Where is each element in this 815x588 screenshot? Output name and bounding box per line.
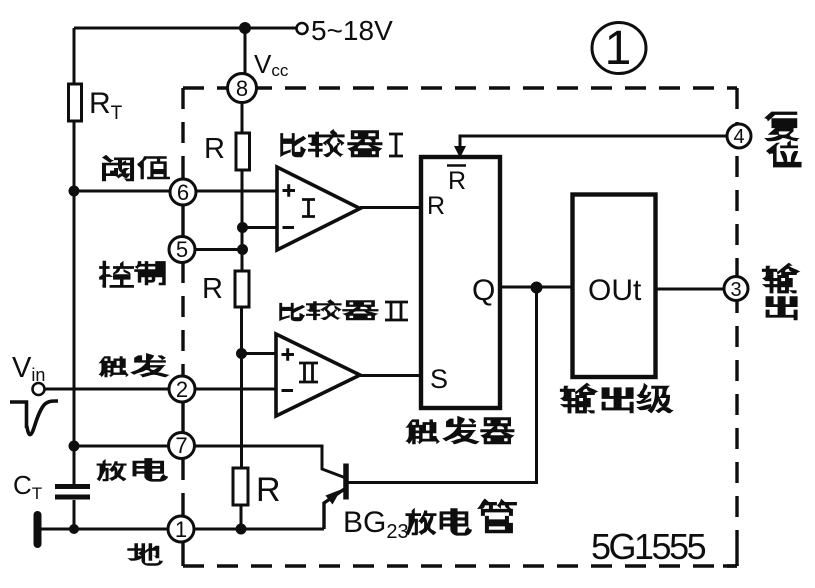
label output chinese char 1 [762, 263, 801, 294]
svg-text:3: 3 [730, 279, 741, 301]
label comparator II char 1 [279, 303, 305, 321]
label discharge chinese char 2 [133, 458, 168, 481]
arrow into flip-flop reset [454, 146, 466, 158]
svg-text:Vin: Vin [12, 352, 45, 385]
pin 1 ground [168, 516, 194, 542]
wire: tap to comparator I inverting input [242, 226, 277, 229]
wire: bottom ground rail [40, 528, 324, 531]
IC boundary dashed box 5G1555 [183, 88, 737, 566]
label comparator II roman II [385, 302, 408, 320]
resistor R middle divider [235, 271, 249, 307]
label output chinese char 2 [766, 296, 798, 320]
wire: output stage to pin 3 [656, 288, 726, 291]
label I roman numeral inside comparator I [302, 200, 315, 217]
node: control pin 5 tap [237, 244, 248, 255]
svg-text:R: R [427, 192, 445, 220]
flip-flop block U3 [421, 157, 500, 408]
wire: pin8 to R divider [241, 103, 244, 133]
label reset chinese char 2 [766, 140, 802, 167]
label flip-flop char 3 [480, 417, 514, 444]
svg-text:5G1555: 5G1555 [591, 526, 706, 567]
svg-text:6: 6 [177, 180, 189, 205]
pin 3 output [724, 277, 748, 302]
label discharge tube char 1 [406, 508, 437, 536]
label output stage char 2 [602, 387, 634, 413]
svg-text:2: 2 [176, 377, 188, 402]
node: junction top rail to pin 8 [239, 22, 251, 34]
wire: Q junction down to transistor base [348, 288, 537, 483]
wire: pin 5 to divider [182, 248, 243, 251]
label control chinese char 2 [134, 261, 165, 285]
label ground chinese char [127, 543, 163, 566]
label flip-flop char 1 [405, 419, 440, 444]
label output stage char 3 [636, 383, 673, 414]
svg-text:5: 5 [176, 237, 188, 262]
svg-text:R: R [202, 273, 223, 305]
node: discharge junction on left rail [69, 441, 80, 452]
transistor emitter with arrow [324, 489, 345, 529]
svg-text:CT: CT [13, 470, 42, 503]
pin 4 reset [727, 124, 751, 148]
pin 7 discharge [169, 433, 195, 459]
svg-text:7: 7 [175, 433, 187, 458]
wire: Vin to comparator II inverting input [45, 388, 276, 391]
label trigger chinese char 2 [130, 353, 170, 377]
svg-text:Q: Q [472, 274, 495, 307]
figure number 1 in circle [592, 22, 646, 75]
wire: comparator II output to flip-flop S [360, 374, 421, 377]
op-amp comparator I U1 [277, 167, 360, 250]
label threshold chinese char 1 [102, 155, 134, 181]
wire: Q output to output stage [500, 286, 572, 289]
label II roman numeral inside comparator II [299, 363, 318, 382]
wire: left vertical threshold to discharge node [73, 191, 76, 446]
wire: tap to comparator II non-inverting input [242, 352, 277, 355]
label comparator I char 3 [347, 130, 382, 157]
svg-text:1: 1 [175, 517, 187, 542]
wire: comparator I output to flip-flop R [360, 206, 421, 209]
label comparator I char 1 [280, 133, 306, 157]
svg-text:BG23: BG23 [343, 506, 409, 543]
transistor Q1 BG23 bar [343, 464, 349, 500]
label threshold chinese char 2 [137, 156, 170, 179]
label discharge tube char 3 [477, 498, 517, 533]
label discharge chinese char 1 [97, 459, 127, 481]
svg-text:R: R [448, 167, 466, 195]
node: CT to ground rail junction [69, 524, 79, 534]
op-amp comparator II U2 [276, 334, 360, 416]
wire: left vertical from rail to RT [73, 28, 76, 84]
waveform negative trigger pulse [10, 401, 58, 435]
label comparator II char 3 [342, 300, 378, 320]
node: comparator II non-inverting tap [236, 348, 247, 359]
capacitor CT [55, 484, 90, 489]
svg-text:8: 8 [236, 76, 248, 101]
wire: lower R to ground rail [240, 505, 243, 529]
wire: CT to ground rail [73, 500, 76, 529]
pin 5 control [169, 237, 195, 263]
wire: discharge pin 7 to transistor collector [74, 446, 345, 478]
label R-bar reset input [447, 166, 466, 196]
label comparator II char 2 [306, 299, 342, 320]
label discharge tube char 2 [440, 508, 472, 535]
node: threshold junction on left rail [69, 186, 80, 197]
wire: divider between upper R and middle R [241, 170, 244, 271]
wire: Vcc top rail [74, 27, 296, 30]
svg-text:R: R [256, 471, 281, 509]
wire: divider middle R to lower R [240, 307, 243, 468]
label comparator I roman I [389, 134, 403, 156]
wire: down to capacitor CT [73, 446, 76, 484]
label trigger chinese char 1 [98, 356, 128, 377]
svg-text:Vcc: Vcc [254, 49, 289, 80]
label control chinese char 1 [99, 261, 134, 288]
wire: threshold pin 6 to comparator I + [74, 190, 277, 193]
svg-text:RT: RT [89, 87, 123, 124]
label comparator I char 2 [308, 129, 345, 157]
svg-text:4: 4 [733, 126, 744, 148]
label output stage char 1 [560, 383, 599, 414]
label flip-flop char 2 [442, 416, 480, 444]
terminal 5~18V supply [297, 23, 308, 34]
output stage block U4 [573, 195, 656, 378]
wire: reset pin 4 line [460, 136, 727, 148]
svg-text:1: 1 [605, 22, 632, 75]
resistor RT [69, 84, 82, 121]
svg-text:S: S [430, 364, 448, 394]
pin 2 trigger [169, 376, 195, 402]
node: comparator I inverting tap [237, 222, 248, 233]
wire: junction down to pin 8 [244, 28, 247, 75]
svg-text:R: R [204, 133, 225, 165]
pin 6 threshold [170, 179, 196, 205]
terminal Vin trigger input [33, 383, 45, 395]
pin 8 Vcc [228, 74, 257, 103]
resistor R lower divider [233, 468, 248, 505]
node: lower R to ground junction [236, 524, 247, 535]
resistor R upper divider [236, 133, 250, 170]
ground [34, 515, 42, 544]
svg-text:5~18V: 5~18V [311, 15, 393, 46]
wire: RT down to threshold node [73, 121, 76, 191]
svg-text:OUt: OUt [588, 274, 642, 307]
label reset chinese char 1 [764, 112, 801, 142]
node: Q output junction [531, 282, 543, 294]
